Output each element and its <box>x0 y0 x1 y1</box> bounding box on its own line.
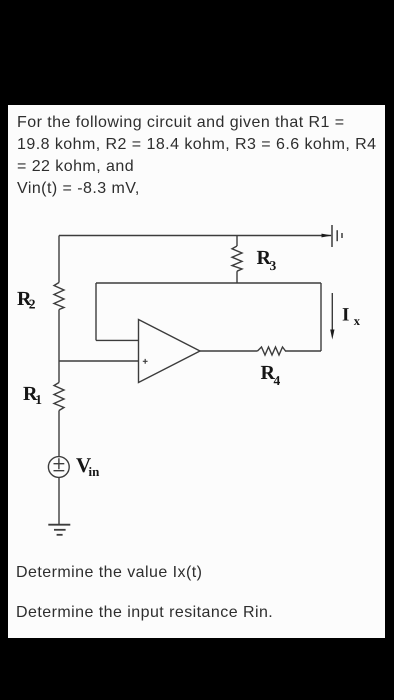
arrowhead to rail <box>322 234 333 238</box>
resistor R4 <box>258 347 286 355</box>
op-amp plus sign <box>143 359 148 364</box>
wire feedback top <box>96 282 321 284</box>
rail bars <box>331 225 333 247</box>
wire to op-amp top input <box>96 339 139 341</box>
resistor R3 lead top <box>236 236 238 247</box>
svg-text:I: I <box>342 304 349 325</box>
node junction to inverting input <box>59 360 139 362</box>
voltage source Vin circle <box>48 457 69 478</box>
resistor R1 <box>54 383 64 411</box>
op-amp U1 <box>139 320 201 383</box>
svg-text:2: 2 <box>29 297 36 312</box>
svg-text:in: in <box>89 464 101 479</box>
plus-minus symbol <box>54 458 65 470</box>
wire top horizontal <box>59 235 331 237</box>
svg-text:4: 4 <box>274 373 281 388</box>
wire op-amp output <box>200 350 258 352</box>
resistor R3 <box>232 246 242 271</box>
ground <box>48 524 70 526</box>
svg-text:1: 1 <box>35 392 42 407</box>
wire left vertical upper <box>58 236 60 283</box>
wire left vertical lower <box>58 411 60 457</box>
wire source to ground <box>58 477 60 524</box>
wire feedback left vertical <box>95 283 97 340</box>
resistor R2 <box>54 283 64 310</box>
current arrow Ix <box>331 293 333 331</box>
resistor R3 lead bottom <box>236 271 238 283</box>
arrowhead Ix down <box>330 330 334 340</box>
svg-text:x: x <box>354 314 361 328</box>
wire left vertical middle <box>58 310 60 383</box>
wire output right <box>285 350 321 352</box>
wire feedback right vertical <box>320 283 322 351</box>
svg-text:3: 3 <box>270 258 277 273</box>
